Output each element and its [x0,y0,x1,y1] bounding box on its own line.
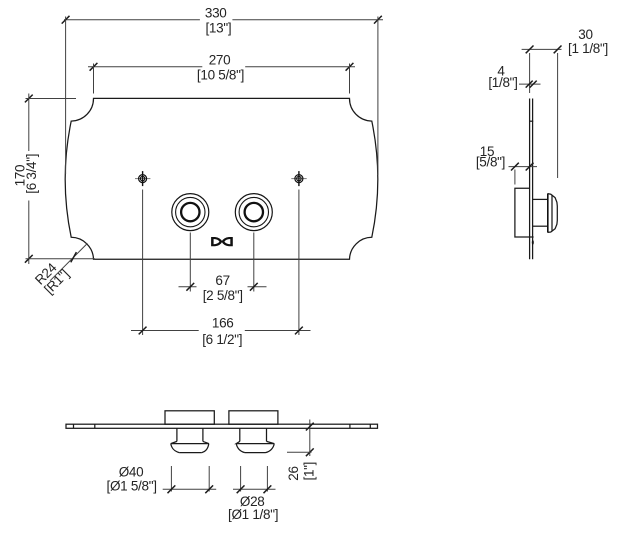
svg-text:[1"]: [1"] [301,462,316,481]
svg-text:[10 5/8"]: [10 5/8"] [197,68,244,83]
right knob circles [235,194,272,231]
svg-text:[2 5/8"]: [2 5/8"] [203,288,243,303]
svg-text:[13"]: [13"] [205,21,231,36]
bottom view left valve body [165,411,214,424]
front view plate outline [65,98,378,259]
svg-text:330: 330 [205,5,227,20]
svg-text:67: 67 [215,273,229,288]
dim 166 line [131,327,311,335]
dim D40 line [163,485,217,493]
dim 166 text [202,316,242,347]
dim 15 leader [509,163,538,171]
svg-text:[Ø1 1/8"]: [Ø1 1/8"] [228,507,278,522]
svg-text:Ø40: Ø40 [119,465,144,480]
left knob circles [172,194,209,231]
svg-text:270: 270 [209,52,231,67]
dim D40 extension lines [171,466,209,492]
dim 67 line [179,283,267,291]
bottom view right valve body [229,411,278,424]
dim 270 extension lines [94,64,350,94]
dim 26 text [286,462,316,481]
svg-text:[5/8"]: [5/8"] [476,155,505,170]
dim 15 text [476,144,505,170]
side view valve body [515,188,534,244]
dim 15 extension line [514,170,516,185]
dim D28 extension lines [241,466,268,492]
dim 170 text [13,154,39,194]
side view plate [529,99,533,260]
dim 67 text [203,273,243,303]
dim 270 text [197,52,244,82]
svg-text:[1/8"]: [1/8"] [488,75,517,90]
svg-text:[6 1/2"]: [6 1/2"] [202,332,242,347]
dim 26 extension line [287,451,312,453]
svg-text:26: 26 [286,466,301,480]
dim 30 line [522,46,562,54]
dim 30 extension lines [530,53,558,178]
dim 330 line [62,16,383,24]
left screw hole target [135,171,150,186]
svg-text:30: 30 [578,27,592,42]
dim 4 leader [519,81,541,88]
right screw hole target [291,171,306,186]
dim 26 line [306,420,314,457]
dim 330 extension lines [66,17,378,176]
svg-text:[6 3/4"]: [6 3/4"] [24,154,39,194]
dim 67 extension lines [190,233,254,292]
dim 30 text [568,27,608,56]
svg-text:[Ø1 5/8"]: [Ø1 5/8"] [107,479,157,494]
bottom view right knob [236,428,274,452]
dim R24 text [32,260,72,297]
svg-text:[1 1/8"]: [1 1/8"] [568,41,608,56]
dim 166 extension lines [143,190,299,336]
dim 170 line [25,94,33,265]
logo bowtie DD [211,237,233,246]
dim 170 extension lines [26,99,96,259]
dim D28 line [233,485,276,493]
side view knob cap [548,193,558,232]
bottom view left knob [171,428,209,452]
dim 4 text [488,63,517,90]
dim D28 text [228,494,278,522]
bottom view plate strip [66,424,378,428]
dim D40 text [107,465,157,494]
dim 270 line [88,63,355,71]
svg-text:166: 166 [212,316,234,331]
dim 330 text [205,5,231,35]
dim R24 leader [50,243,87,280]
side view knob stem [533,199,548,226]
